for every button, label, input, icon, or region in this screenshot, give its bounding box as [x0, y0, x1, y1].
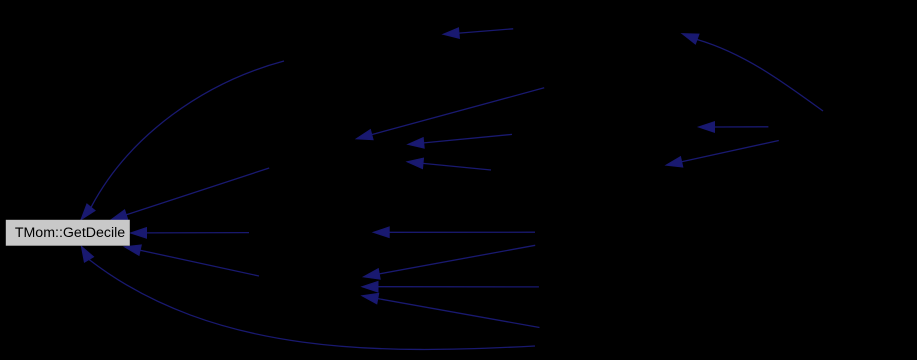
wire: edge E1 top arrow into top-middle node	[443, 28, 513, 39]
wire: edge E5 long diagonal into second-column node	[356, 88, 544, 140]
wire: edge E7 arrow into second-column node	[407, 158, 491, 170]
wire: curved edge C1 sweeping from top into TMom::GetDecile top	[81, 61, 284, 220]
wire: edge E14 into TMom::GetDecile bottom-right	[125, 245, 260, 276]
wire: edge E4 right diagonal arrow	[666, 141, 779, 168]
wire: curved edge C2 sweeping from bottom-right into TMom::GetDecile bottom	[81, 246, 535, 349]
wire: edge E9 diagonal arrow down-left	[364, 245, 536, 279]
wire: edge E8 horizontal arrow row2	[373, 227, 535, 238]
wire: edge E13 into TMom::GetDecile right	[131, 228, 250, 239]
wire: edge E10 horizontal arrow row3	[362, 281, 539, 292]
svg-text:TMom::GetDecile: TMom::GetDecile	[15, 225, 125, 241]
wire: edge E11 diagonal arrow up-left	[362, 293, 540, 327]
wire: curved edge E2 top-right	[682, 34, 823, 111]
node TMom::GetDecile (current node, grey box)	[6, 220, 130, 246]
wire: edge E12 into TMom::GetDecile top	[111, 168, 269, 220]
wire: edge E6 arrow into second-column node	[408, 134, 512, 148]
wire: edge E3 right horizontal arrow	[699, 122, 769, 133]
